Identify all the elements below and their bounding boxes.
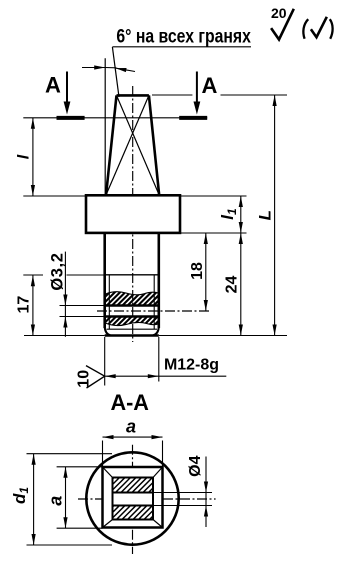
section mark right bar [179, 116, 207, 120]
svg-text:l: l [15, 154, 32, 159]
flange bottom extension line [180, 232, 247, 234]
dim a top [102, 441, 104, 468]
thread section hatch bottom band [94, 315, 169, 328]
head trapezoid outline [106, 95, 159, 195]
head face diagonals [106, 95, 159, 195]
thread minor diameter lines [108, 275, 110, 329]
taper mark V [86, 366, 105, 377]
dim 24 [240, 233, 242, 336]
bottom extension line [24, 335, 105, 337]
svg-text:M12-8g: M12-8g [164, 356, 219, 373]
dim diameter 4 [205, 457, 207, 528]
section view centerline horizontal [78, 498, 216, 500]
dim a left [57, 466, 103, 468]
svg-text:6° на всех гранях: 6° на всех гранях [116, 27, 251, 48]
hole top edge [113, 492, 154, 494]
flange top extension lines [23, 195, 86, 197]
angle vertical reference line [104, 58, 106, 196]
shaft outline [105, 233, 159, 336]
note shelf line [112, 46, 251, 48]
svg-text:Ø3,2: Ø3,2 [48, 253, 66, 291]
svg-text:A: A [202, 73, 218, 98]
head top extension line right [152, 94, 192, 96]
svg-text:A: A [45, 73, 61, 98]
svg-text:18: 18 [189, 262, 206, 280]
outer square [103, 467, 163, 528]
dim diameter 3,2 [64, 252, 66, 337]
svg-text:17: 17 [15, 296, 32, 314]
section arrow right [196, 72, 198, 106]
hole bottom edge [113, 505, 154, 507]
svg-text:a: a [126, 417, 136, 437]
surface finish in parentheses [303, 19, 308, 39]
section hatch upper [99, 477, 165, 493]
section hatch lower [100, 505, 165, 520]
angle dim left arrow [82, 67, 105, 69]
chamfer arcs [105, 327, 111, 335]
cross hole top edge [60, 305, 105, 307]
wave break line bottom [105, 322, 159, 325]
chamfer line [107, 328, 158, 330]
angle dim right arrow [115, 68, 135, 71]
svg-text:A-A: A-A [110, 390, 149, 415]
cross hole bottom edge [60, 316, 105, 318]
dim d1 [27, 453, 113, 455]
svg-text:Ø4: Ø4 [187, 455, 204, 476]
M12 dimension line with shelf [105, 375, 227, 377]
thread end extension ticks [23, 274, 43, 276]
angle leader slant line [112, 47, 119, 97]
section line A-A thin trace [23, 117, 207, 119]
flange [86, 195, 180, 233]
inner square [113, 478, 154, 520]
thread section hatch top band [91, 290, 175, 306]
cross hole centerline [97, 310, 211, 312]
svg-text:10: 10 [76, 370, 93, 388]
section arrow left [66, 72, 68, 106]
dim l1 [240, 196, 242, 233]
angle dim connector [105, 67, 116, 69]
svg-text:20: 20 [271, 5, 287, 21]
corner diagonal top-right [153, 467, 163, 478]
wave break line top [105, 292, 159, 295]
svg-text:24: 24 [223, 276, 240, 294]
section view centerline vertical [132, 445, 134, 554]
corner diagonal bottom-right [153, 520, 163, 528]
dim 17 [32, 275, 34, 335]
M12 extension lines [104, 337, 106, 386]
corner diagonal top-left [103, 467, 113, 478]
centerline main view [132, 86, 134, 342]
dim l (left) [32, 118, 34, 196]
corner diagonal bottom-left [103, 520, 113, 528]
section mark left bar [57, 116, 85, 120]
dim 18 [205, 233, 207, 311]
svg-text:a: a [45, 496, 65, 506]
thread runout line [105, 274, 159, 276]
dim L [274, 95, 276, 336]
svg-text:L: L [256, 210, 275, 220]
flange circle [86, 452, 178, 544]
